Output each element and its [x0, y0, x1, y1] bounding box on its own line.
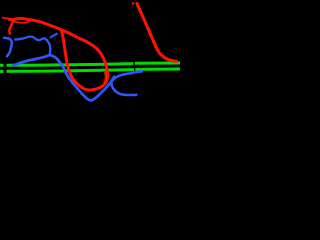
red trace: main loop with tail from left edge [3, 18, 10, 19]
green trace upper: left stub [0, 64, 4, 67]
green trace upper: main segment [7, 64, 134, 66]
blue trace: upper plateau wiggle into vertical drop [15, 37, 50, 55]
green trace lower: right segment [135, 68, 180, 71]
blue trace: left hook shape [4, 38, 12, 57]
red trace: inner doubling of loop right side [104, 72, 106, 84]
green trace lower: main segment [7, 70, 135, 72]
blue trace: short diagonal stub under red fork [51, 34, 57, 38]
red trace: right descending stroke from top [137, 4, 177, 62]
red trace: small descender tail at left [9, 21, 14, 34]
green trace upper: right segment [135, 62, 180, 65]
red trace: thin inner doubled strand [14, 21, 30, 23]
blue trace: main long curve left ridge over green, peak, descent into U bottom and rise [13, 55, 114, 100]
blue trace: right C curve under green lines [111, 71, 142, 95]
red dot top right [132, 2, 135, 5]
green trace lower: left stub [0, 70, 4, 73]
